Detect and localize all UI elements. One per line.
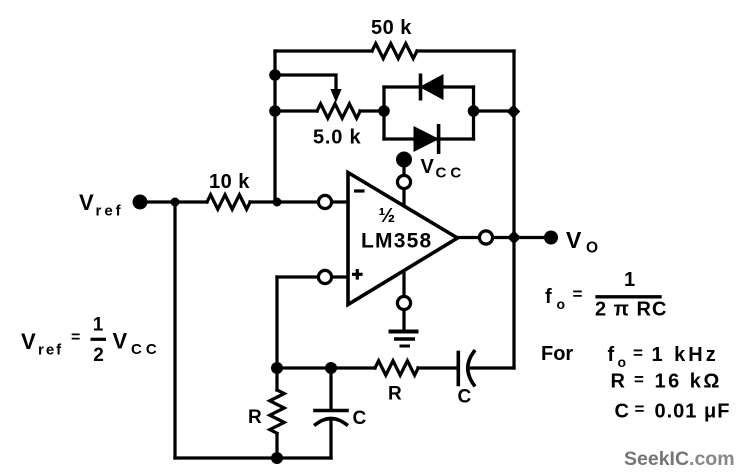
resistor R vertical zigzag bbox=[270, 390, 284, 433]
wire RC row left bbox=[277, 366, 375, 369]
capacitor C horizontal left plate bbox=[456, 353, 460, 385]
junction node R top bbox=[271, 362, 283, 374]
junction node right bus diamond bbox=[507, 105, 521, 119]
svg-text:½: ½ bbox=[379, 205, 396, 227]
svg-text:o: o bbox=[557, 296, 566, 312]
svg-text:ref: ref bbox=[38, 342, 63, 359]
wire top feedback right segment bbox=[417, 49, 514, 52]
svg-text:16 kΩ: 16 kΩ bbox=[655, 371, 722, 393]
wire R vertical bottom lead bbox=[275, 435, 278, 458]
svg-text:For: For bbox=[541, 343, 573, 365]
wire inverting pin to op-amp bbox=[332, 200, 348, 203]
diode D2 bottom (pointing right) bbox=[414, 124, 439, 154]
wire diode box left side bbox=[382, 87, 385, 139]
wire Vref terminal to junction bbox=[147, 200, 207, 203]
annotation C equals 0.01 uF bbox=[615, 400, 731, 423]
wire bottom rail bbox=[175, 456, 331, 459]
svg-text:C: C bbox=[353, 408, 367, 429]
wire capacitor C vertical top lead bbox=[329, 368, 332, 411]
formula Vref equals half Vcc bbox=[21, 315, 161, 367]
wire 10k to inverting pin bbox=[250, 200, 318, 203]
svg-text:0.01 μF: 0.01 μF bbox=[655, 401, 731, 423]
wire noninverting pin horizontal bbox=[277, 275, 318, 278]
wire diode box bottom bbox=[384, 137, 474, 140]
op-amp minus sign bbox=[354, 189, 365, 192]
svg-text:=: = bbox=[633, 344, 643, 363]
junction node diode box left bbox=[378, 105, 390, 117]
resistor 10k zigzag bbox=[207, 195, 250, 209]
svg-text:C: C bbox=[615, 401, 629, 423]
svg-text:10 k: 10 k bbox=[209, 171, 250, 193]
junction node C top bbox=[325, 362, 337, 374]
resistor 5.0k zigzag bbox=[317, 104, 360, 118]
junction node bottom rail bbox=[271, 452, 283, 464]
annotation fo equals 1 kHz bbox=[608, 344, 719, 371]
resistor R horizontal zigzag bbox=[375, 361, 418, 375]
wire capacitor C vertical bottom lead bbox=[329, 420, 332, 458]
wire pot row right bbox=[360, 109, 384, 112]
svg-text:CC: CC bbox=[436, 165, 466, 182]
wire output to Vo terminal bbox=[493, 236, 544, 239]
terminal Vcc supply dot bbox=[396, 152, 412, 168]
wire noninverting pin to op-amp bbox=[332, 275, 348, 278]
svg-text:f: f bbox=[608, 344, 615, 366]
svg-text:R: R bbox=[388, 384, 402, 405]
svg-text:V: V bbox=[421, 156, 435, 178]
terminal Vref bbox=[133, 195, 148, 210]
terminal Vo bbox=[544, 231, 558, 245]
pin circle ground bbox=[397, 296, 410, 309]
wire diode box top bbox=[384, 85, 474, 88]
formula fo equals 1 over 2 pi RC bbox=[545, 269, 667, 321]
op-amp U1 LM358 triangle bbox=[348, 173, 458, 305]
wire top feedback left segment bbox=[275, 49, 372, 52]
svg-text:50 k: 50 k bbox=[371, 17, 412, 39]
svg-text:1: 1 bbox=[624, 269, 635, 291]
junction node output diamond bbox=[507, 231, 521, 245]
wire left vertical bus bbox=[273, 51, 276, 202]
svg-text:R: R bbox=[611, 371, 626, 393]
svg-text:1 kHz: 1 kHz bbox=[652, 344, 719, 366]
svg-text:V: V bbox=[21, 329, 36, 354]
wire diode box right side bbox=[472, 87, 475, 139]
svg-text:R: R bbox=[248, 407, 262, 428]
svg-text:5.0 k: 5.0 k bbox=[313, 127, 362, 149]
svg-text:1: 1 bbox=[93, 315, 104, 336]
svg-text:O: O bbox=[586, 240, 598, 257]
wire diode box to right bus bbox=[474, 109, 515, 112]
wire Vcc pin bbox=[402, 167, 405, 207]
svg-text:=: = bbox=[573, 285, 583, 304]
junction node at pot wiper tap bbox=[269, 69, 281, 81]
svg-text:2 π RC: 2 π RC bbox=[595, 299, 667, 321]
svg-text:CC: CC bbox=[131, 341, 161, 358]
svg-text:=: = bbox=[634, 370, 644, 389]
capacitor C vertical top plate bbox=[315, 409, 347, 413]
annotation R equals 16 kOhm bbox=[611, 370, 722, 393]
pin circle inverting input bbox=[318, 195, 331, 208]
wire noninverting vertical bbox=[275, 277, 278, 368]
svg-text:=: = bbox=[71, 329, 80, 346]
wire right vertical bus bbox=[512, 51, 515, 368]
svg-text:SeekIC.com: SeekIC.com bbox=[624, 448, 735, 470]
svg-text:o: o bbox=[618, 354, 627, 370]
svg-text:C: C bbox=[458, 387, 472, 408]
svg-text:ref: ref bbox=[96, 203, 124, 220]
diode D1 top (pointing left) bbox=[421, 74, 444, 101]
wire R vertical top lead bbox=[275, 368, 278, 390]
wire R to capacitor C horizontal bbox=[418, 366, 458, 369]
junction node pot left bbox=[269, 105, 281, 117]
wire capacitor to right bus bbox=[468, 366, 514, 369]
junction node diode box right bbox=[468, 105, 480, 117]
capacitor C horizontal curved plate bbox=[468, 352, 474, 386]
pin circle Vcc bbox=[397, 175, 410, 188]
wire ground pin bbox=[402, 271, 405, 332]
wire op-amp output bbox=[458, 236, 480, 239]
capacitor C vertical curved plate bbox=[316, 419, 347, 425]
junction node 10k right bbox=[273, 198, 282, 207]
svg-text:LM358: LM358 bbox=[361, 230, 432, 253]
wire left long vertical from Vref bbox=[173, 202, 176, 458]
svg-text:V: V bbox=[113, 329, 128, 354]
svg-text:f: f bbox=[545, 286, 552, 308]
ground symbol bbox=[389, 332, 419, 347]
svg-text:=: = bbox=[635, 400, 645, 419]
pin circle output bbox=[479, 231, 492, 244]
svg-text:V: V bbox=[566, 227, 582, 253]
svg-text:V: V bbox=[79, 190, 94, 215]
svg-text:2: 2 bbox=[93, 345, 104, 366]
resistor 50k zigzag bbox=[372, 44, 417, 59]
op-amp plus sign bbox=[352, 269, 363, 280]
junction node Vref branch bbox=[171, 198, 180, 207]
wire pot row left bbox=[275, 109, 317, 112]
pin circle noninverting input bbox=[318, 270, 331, 283]
wire pot wiper arm bbox=[275, 75, 336, 91]
potentiometer wiper arrow bbox=[330, 89, 341, 103]
